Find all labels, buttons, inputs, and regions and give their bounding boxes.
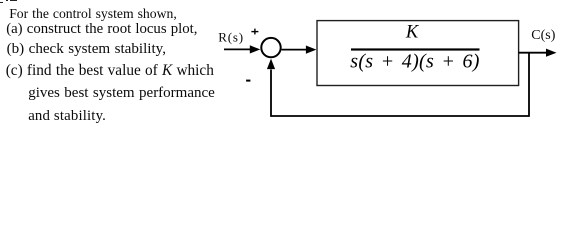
arrowhead into block bbox=[306, 46, 317, 54]
wire: block output to C(s) bbox=[519, 52, 547, 54]
minus sign at feedback input bbox=[246, 80, 250, 82]
feedback takeoff junction and wire: down, left, up to summing junction bbox=[271, 53, 529, 116]
plus sign at summing junction bbox=[251, 29, 258, 35]
wire: R(s) input to summing junction bbox=[224, 48, 253, 50]
arrowhead to C(s) output bbox=[546, 49, 557, 57]
problem text line 2 bbox=[6, 22, 197, 37]
problem text line 4 bbox=[6, 63, 214, 78]
summing junction bbox=[261, 38, 280, 57]
stray fragment top-left corner bbox=[0, 2, 3, 3]
svg-text:s(s + 4)(s + 6): s(s + 4)(s + 6) bbox=[350, 51, 480, 73]
block G(s) = K / s(s+4)(s+6) bbox=[317, 21, 519, 86]
problem text line 1 bbox=[9, 7, 177, 21]
problem text line 3 bbox=[7, 42, 166, 57]
svg-text:K: K bbox=[405, 23, 420, 43]
wire: summing junction to block bbox=[282, 49, 308, 51]
block diagram bbox=[0, 0, 571, 136]
problem text line 6 bbox=[28, 109, 106, 124]
arrowhead into summing junction bbox=[250, 45, 260, 53]
fraction bar bbox=[351, 48, 480, 50]
svg-text:R(s): R(s) bbox=[218, 30, 244, 45]
svg-text:C(s): C(s) bbox=[531, 28, 555, 43]
arrowhead up into summing junction bbox=[267, 59, 275, 70]
problem text line 5 bbox=[28, 86, 215, 101]
